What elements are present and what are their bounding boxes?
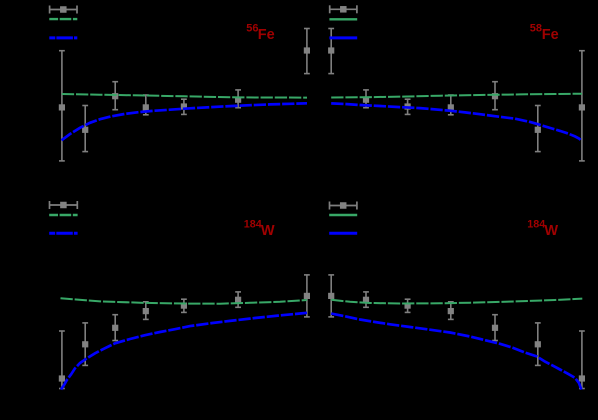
bottom-left panel data point 7 square marker xyxy=(304,293,310,299)
bottom-left panel data point 1 error bar xyxy=(59,331,65,389)
svg-text:Fe: Fe xyxy=(542,27,559,43)
top-right panel data point 5 error bar xyxy=(492,82,498,110)
top-left panel data point 5 square marker xyxy=(181,103,187,109)
top-left panel data point 7 square marker xyxy=(304,47,310,53)
top-left panel data point 3 error bar xyxy=(112,82,118,110)
top-right panel data point 1 square marker xyxy=(328,47,334,53)
bottom-right panel blue theory curve xyxy=(331,314,581,390)
bottom-left panel data point 5 error bar xyxy=(181,299,187,312)
bottom-left legend: green line entry xyxy=(49,214,77,216)
top-right panel data point 3 error bar xyxy=(405,99,411,114)
svg-text:56: 56 xyxy=(246,23,258,35)
top-right panel green theory curve xyxy=(331,94,582,98)
top-left panel data point 6 square marker xyxy=(235,97,241,103)
top-left panel data point 4 square marker xyxy=(143,104,149,110)
bottom-right panel data point 5 error bar xyxy=(492,315,498,341)
top-left legend: data-point entry xyxy=(49,6,77,14)
top-left legend: blue line entry xyxy=(49,36,77,39)
bottom-left legend: data-point entry xyxy=(49,201,77,209)
bottom-left panel data point 3 error bar xyxy=(112,315,118,341)
bottom-left panel data point 5 square marker xyxy=(181,303,187,309)
svg-text:Fe: Fe xyxy=(258,27,275,43)
bottom-left panel data point 2 error bar xyxy=(82,323,88,366)
bottom-left panel data point 1 square marker xyxy=(59,375,65,381)
bottom-right panel data point 4 square marker xyxy=(448,308,454,314)
bottom-right panel data point 6 error bar xyxy=(535,323,541,366)
svg-text:184: 184 xyxy=(244,219,262,231)
top-right panel data point 6 square marker xyxy=(535,127,541,133)
svg-text:W: W xyxy=(544,223,558,239)
bottom-right panel data point 1 square marker xyxy=(328,293,334,299)
bottom-right panel data point 6 square marker xyxy=(535,341,541,347)
top-right panel data point 2 error bar xyxy=(363,90,369,108)
top-right legend: data-point entry xyxy=(329,5,357,13)
bottom-left panel data point 7 error bar xyxy=(304,275,310,317)
bottom-right panel data point 7 square marker xyxy=(579,375,585,381)
top-left panel data point 2 square marker xyxy=(82,127,88,133)
isotope label 184W (bottom-left) xyxy=(244,219,275,240)
top-left panel data point 5 error bar xyxy=(181,99,187,114)
bottom-left panel data point 6 square marker xyxy=(235,297,241,303)
top-left panel green theory curve xyxy=(62,94,307,98)
bottom-left panel data point 2 square marker xyxy=(82,341,88,347)
top-left panel data point 4 error bar xyxy=(143,95,149,115)
top-left legend: green line entry xyxy=(49,18,77,20)
top-right panel data point 7 error bar xyxy=(579,51,585,161)
top-left panel data point 7 error bar xyxy=(304,29,310,74)
svg-text:184: 184 xyxy=(527,219,545,231)
top-right panel data point 4 error bar xyxy=(448,95,454,115)
bottom-right legend: green line entry xyxy=(329,214,357,216)
top-left panel blue theory curve xyxy=(62,103,308,140)
top-left panel data point 1 square marker xyxy=(59,104,65,110)
bottom-right panel data point 3 error bar xyxy=(405,299,411,312)
top-right panel data point 3 square marker xyxy=(405,103,411,109)
top-right panel blue theory curve xyxy=(331,103,582,141)
isotope label 184W (bottom-right) xyxy=(527,219,558,240)
bottom-left panel green theory curve xyxy=(61,298,308,304)
top-right legend: blue line entry xyxy=(329,36,357,39)
bottom-left panel data point 3 square marker xyxy=(112,325,118,331)
bottom-left legend: blue line entry xyxy=(49,232,77,235)
isotope label 58Fe (top-right) xyxy=(530,23,559,44)
bottom-right legend: blue line entry xyxy=(329,232,357,235)
top-left panel data point 3 square marker xyxy=(112,93,118,99)
bottom-right panel data point 2 error bar xyxy=(363,292,369,307)
top-right panel data point 4 square marker xyxy=(448,104,454,110)
bottom-left panel blue theory curve xyxy=(61,313,307,390)
bottom-left panel data point 4 square marker xyxy=(143,308,149,314)
top-left panel data point 6 error bar xyxy=(235,90,241,108)
bottom-right panel data point 1 error bar xyxy=(328,275,334,317)
bottom-right legend: data-point entry xyxy=(329,202,357,210)
bottom-right panel green theory curve xyxy=(331,299,582,304)
top-right panel data point 5 square marker xyxy=(492,93,498,99)
bottom-right panel data point 2 square marker xyxy=(363,297,369,303)
svg-text:58: 58 xyxy=(530,23,542,35)
top-left panel data point 1 error bar xyxy=(59,51,65,161)
isotope label 56Fe (top-left) xyxy=(246,23,274,44)
top-right legend: green line entry xyxy=(329,18,357,20)
bottom-right panel data point 3 square marker xyxy=(405,303,411,309)
svg-text:W: W xyxy=(261,223,275,239)
top-right panel data point 6 error bar xyxy=(535,106,541,152)
top-right panel data point 7 square marker xyxy=(579,104,585,110)
top-right panel data point 1 error bar xyxy=(328,29,334,74)
bottom-right panel data point 4 error bar xyxy=(448,302,454,320)
top-right panel data point 2 square marker xyxy=(363,97,369,103)
bottom-left panel data point 4 error bar xyxy=(143,302,149,320)
bottom-right panel data point 5 square marker xyxy=(492,325,498,331)
bottom-left panel data point 6 error bar xyxy=(235,292,241,307)
bottom-right panel data point 7 error bar xyxy=(579,331,585,389)
top-left panel data point 2 error bar xyxy=(82,106,88,152)
